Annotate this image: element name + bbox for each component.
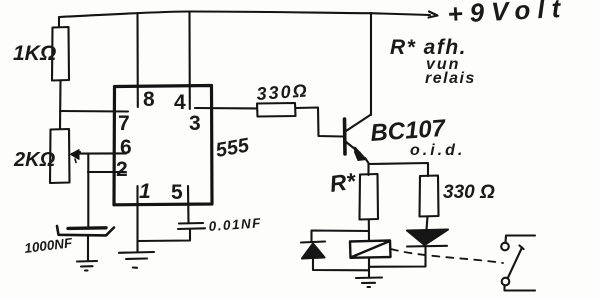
- resistor R* vertical: [360, 174, 379, 220]
- wire node junction to pin 7: [60, 110, 128, 113]
- wire diode bottom to ground wire: [313, 259, 369, 271]
- svg-text:5: 5: [171, 181, 183, 204]
- arrowhead of +9V rail: [429, 12, 438, 18]
- wire pin 8 from rail into IC: [136, 13, 138, 107]
- wire C2 bottom to pin1 ground wire: [138, 229, 191, 241]
- capacitor C1 1000nF bottom plate: [57, 226, 114, 235]
- svg-text:330 Ω: 330 Ω: [443, 182, 495, 203]
- wire LED to ground wire: [369, 247, 426, 267]
- collector of Q1: [346, 115, 371, 132]
- wire pin 1 down to ground: [136, 186, 138, 252]
- svg-text:2: 2: [116, 158, 128, 181]
- svg-text:R*: R*: [328, 168, 358, 197]
- potentiometer 2KΩ: [50, 129, 70, 183]
- svg-text:7: 7: [118, 112, 130, 135]
- relay K1 coil: [350, 241, 391, 258]
- svg-text:2KΩ: 2KΩ: [13, 149, 56, 171]
- pin 3 stub and wire to 330Ω: [195, 107, 257, 110]
- diode D1 flyback body: [302, 244, 325, 259]
- resistor 330Ω vertical: [420, 176, 439, 217]
- transistor Q1 BC107 base bar: [343, 119, 347, 154]
- wire collector to rail: [370, 13, 372, 115]
- wire emitter node to right branch: [369, 163, 429, 176]
- svg-text:relais: relais: [425, 70, 476, 87]
- wire junction down to capacitor 1000nF: [87, 154, 89, 227]
- emitter of Q1 with arrow: [346, 142, 360, 153]
- switch S1 top terminal: [506, 236, 536, 243]
- switch S1 bottom terminal: [505, 286, 536, 291]
- wire 330Ω to transistor base: [296, 108, 344, 137]
- svg-text:330Ω: 330Ω: [256, 80, 309, 104]
- wire node to flyback diode top: [312, 231, 370, 243]
- ground under relay: [356, 278, 382, 288]
- wire 1K bottom to potentiometer top: [59, 81, 62, 130]
- resistor 1KΩ: [52, 27, 69, 81]
- wire pin 5 down to capacitor: [187, 186, 190, 223]
- svg-text:8: 8: [143, 88, 155, 111]
- wire emitter junction: [365, 158, 369, 175]
- diode D1 flyback cathode bar: [301, 242, 325, 243]
- wire wiper to pin 6: [76, 152, 126, 154]
- capacitor C1 1000nF top plate: [68, 226, 106, 230]
- svg-text:6: 6: [120, 136, 132, 159]
- IC U1 555 outline: [114, 86, 212, 205]
- resistor 330Ω horizontal: [257, 103, 296, 117]
- LED D2 body: [407, 230, 448, 246]
- switch S1 top contact circle: [501, 243, 509, 251]
- wiper arrow of 2KΩ: [72, 152, 80, 154]
- wire R* bottom to relay: [368, 220, 370, 242]
- svg-text:1KΩ: 1KΩ: [13, 42, 56, 65]
- svg-text:1: 1: [139, 180, 151, 203]
- wire 330Ω to LED: [427, 217, 428, 231]
- switch S1 blade: [508, 246, 524, 278]
- wire +9V supply rail: [59, 12, 430, 28]
- ground under 1000nF capacitor: [77, 235, 97, 271]
- wire relay bottom to ground: [368, 258, 370, 278]
- switch S1 bottom contact circle: [502, 278, 510, 286]
- wire pin 4 from rail into IC: [188, 12, 190, 109]
- capacitor C2 0.01nF plates: [178, 223, 205, 229]
- svg-text:3: 3: [189, 112, 201, 135]
- svg-text:4: 4: [174, 91, 186, 114]
- LED D2 cathode bar: [407, 245, 447, 248]
- svg-text:o.i.d.: o.i.d.: [410, 142, 465, 159]
- wire pin 2: [88, 171, 126, 173]
- dashed link relay to switch: [391, 249, 503, 263]
- ground under pin 1: [119, 252, 154, 268]
